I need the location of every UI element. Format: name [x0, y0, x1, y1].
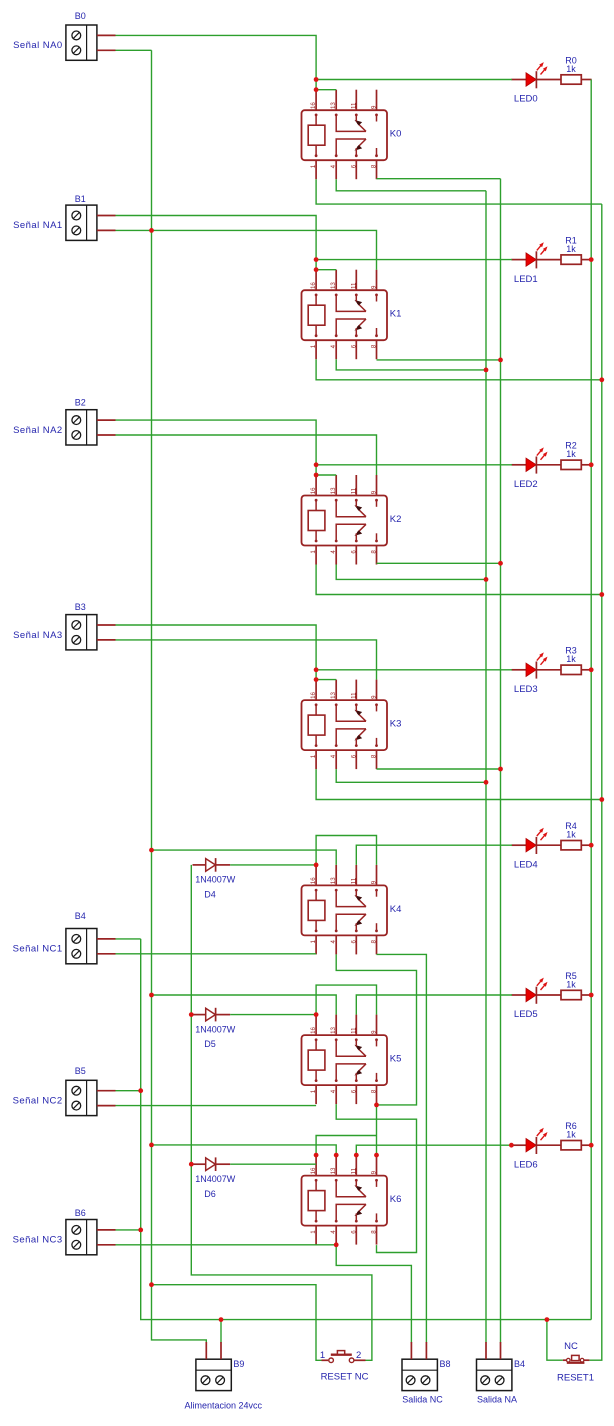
wire to K3.13	[316, 679, 336, 681]
svg-text:8: 8	[371, 550, 378, 554]
wire K.1 rail to RESET1	[589, 204, 601, 1360]
wire to K0.13	[316, 89, 336, 91]
junction	[138, 1228, 143, 1233]
svg-text:4: 4	[330, 550, 337, 554]
svg-text:13: 13	[330, 691, 337, 698]
junction	[189, 1012, 194, 1017]
junction	[314, 863, 319, 868]
junction	[498, 358, 503, 363]
svg-text:1: 1	[310, 164, 317, 168]
resistor R2 (1k)	[561, 441, 592, 470]
svg-text:B3: B3	[75, 602, 86, 612]
svg-text:LED6: LED6	[514, 1159, 538, 1170]
junction	[314, 462, 319, 467]
junction	[314, 77, 319, 82]
svg-text:8: 8	[371, 344, 378, 348]
svg-text:9: 9	[371, 880, 378, 884]
wire K.4 rail to Salida NA 1	[485, 191, 487, 1343]
terminal block B9 (Alimentacion 24vcc)	[185, 1342, 263, 1410]
terminal block B0 (Señal NA0)	[13, 11, 115, 60]
svg-text:9: 9	[371, 490, 378, 494]
svg-text:1k: 1k	[566, 244, 576, 254]
svg-text:2: 2	[356, 1350, 361, 1361]
junction	[354, 1153, 359, 1158]
svg-text:8: 8	[371, 940, 378, 944]
svg-text:NC: NC	[564, 1341, 578, 1352]
wire NC common rail bottom	[141, 939, 592, 1320]
wire K5.11 to LED5	[356, 995, 512, 1015]
svg-text:K2: K2	[390, 514, 402, 525]
LED LED6	[511, 1128, 561, 1171]
wire B1.2 to K1.9	[116, 230, 377, 269]
svg-text:1k: 1k	[566, 830, 576, 840]
wire K6.4 to Salida NC 1	[336, 1245, 411, 1343]
svg-text:1N4007W: 1N4007W	[195, 875, 236, 885]
svg-text:1: 1	[310, 1230, 317, 1234]
wire B6.1 to NC rail	[116, 1229, 141, 1231]
wire K2.8 out	[377, 562, 501, 564]
wire K4 coil tie to K4.9	[316, 836, 376, 865]
svg-text:K5: K5	[390, 1054, 402, 1065]
junction	[334, 1242, 339, 1247]
junction	[589, 257, 594, 262]
wire to K2.13	[316, 474, 336, 476]
wire K3.8 out	[377, 768, 501, 770]
diode D6 (1N4007W)	[193, 1157, 236, 1198]
wire rail to K4.13	[152, 850, 337, 865]
junction	[314, 257, 319, 262]
junction	[334, 1153, 339, 1158]
wire B3.1 to K3 coil	[116, 625, 317, 680]
svg-text:1k: 1k	[566, 64, 576, 74]
relay K3	[302, 680, 402, 770]
junction	[149, 228, 154, 233]
svg-text:16: 16	[310, 1167, 317, 1174]
junction	[599, 592, 604, 597]
junction	[219, 1317, 224, 1322]
junction	[599, 377, 604, 382]
svg-text:LED1: LED1	[514, 274, 538, 285]
junction	[314, 87, 319, 92]
wire B2.2 to K2.9	[116, 435, 377, 475]
svg-text:13: 13	[330, 102, 337, 109]
resistor R6 (1k)	[561, 1121, 592, 1150]
svg-text:K6: K6	[390, 1194, 402, 1205]
svg-text:K3: K3	[390, 719, 402, 730]
svg-text:D6: D6	[204, 1189, 216, 1199]
svg-text:Señal NA2: Señal NA2	[13, 425, 62, 436]
svg-text:11: 11	[350, 487, 357, 494]
wire B0.2 to rail	[116, 49, 152, 51]
svg-text:B2: B2	[75, 398, 86, 408]
svg-text:6: 6	[350, 1089, 357, 1093]
wire K.8 rail to Salida NA 2	[500, 179, 502, 1343]
wire to RESET1	[547, 1320, 563, 1361]
svg-text:13: 13	[330, 1026, 337, 1033]
wire rail to K5.13	[152, 995, 337, 1015]
wire D6 anode tap	[191, 1163, 192, 1165]
svg-text:Señal NA1: Señal NA1	[13, 220, 62, 231]
diode D5 (1N4007W)	[193, 1008, 236, 1049]
svg-text:LED4: LED4	[514, 859, 538, 870]
LED LED4	[511, 828, 561, 871]
svg-text:K4: K4	[390, 904, 402, 915]
junction	[314, 1012, 319, 1017]
junction	[374, 1103, 379, 1108]
junction	[498, 561, 503, 566]
wire K3.1 out	[316, 769, 602, 799]
svg-text:D4: D4	[204, 890, 216, 900]
wire diode anode rail to RESET NC.2	[191, 865, 372, 1360]
junction	[138, 1088, 143, 1093]
svg-text:B4: B4	[75, 911, 86, 921]
svg-text:1: 1	[310, 940, 317, 944]
svg-text:4: 4	[330, 164, 337, 168]
svg-text:13: 13	[330, 1167, 337, 1174]
svg-text:11: 11	[350, 282, 357, 289]
resistor R3 (1k)	[561, 646, 592, 675]
wire K6 coil tie to K6.9	[316, 1136, 376, 1156]
svg-text:1N4007W: 1N4007W	[195, 1174, 236, 1184]
svg-text:Señal NC2: Señal NC2	[13, 1096, 63, 1107]
resistor R0 (1k)	[561, 55, 592, 84]
svg-text:B1: B1	[75, 194, 86, 204]
svg-text:16: 16	[310, 877, 317, 884]
wire K0.1 out	[316, 179, 602, 204]
svg-text:1: 1	[310, 1089, 317, 1093]
junction	[509, 1143, 514, 1148]
svg-text:D5: D5	[204, 1039, 216, 1049]
wire K6.11 to LED6	[356, 1145, 512, 1155]
svg-text:16: 16	[310, 487, 317, 494]
wire B3.2 to K3.9	[116, 640, 377, 680]
relay K4	[302, 865, 402, 955]
wire K4.8 to Salida NC 2	[377, 954, 427, 1342]
svg-text:K1: K1	[390, 309, 402, 320]
junction	[149, 1282, 154, 1287]
svg-text:9: 9	[371, 105, 378, 109]
svg-text:LED3: LED3	[514, 684, 538, 695]
junction	[484, 780, 489, 785]
wire D4 to K4 coil	[230, 864, 316, 866]
svg-text:6: 6	[350, 940, 357, 944]
wire to LED1	[316, 259, 512, 261]
LED LED3	[511, 652, 561, 695]
terminal block B4 (Señal NC1)	[13, 911, 116, 964]
svg-text:Señal NA3: Señal NA3	[13, 630, 62, 641]
svg-text:B9: B9	[233, 1359, 244, 1369]
svg-text:8: 8	[371, 164, 378, 168]
svg-text:1k: 1k	[566, 979, 576, 989]
svg-text:11: 11	[350, 692, 357, 699]
junction	[545, 1317, 550, 1322]
LED LED5	[511, 978, 561, 1021]
svg-text:9: 9	[371, 1170, 378, 1174]
wire B1.1 to K1 coil	[116, 216, 317, 270]
svg-text:13: 13	[330, 282, 337, 289]
junction	[314, 677, 319, 682]
svg-text:LED5: LED5	[514, 1009, 538, 1020]
terminal block B1 (Señal NA1)	[13, 194, 115, 240]
wire rail to RESET NC.1	[152, 1285, 322, 1361]
svg-text:13: 13	[330, 487, 337, 494]
svg-text:4: 4	[330, 1089, 337, 1093]
svg-text:B0: B0	[75, 11, 86, 21]
svg-text:16: 16	[310, 691, 317, 698]
junction	[149, 1143, 154, 1148]
wire to LED0	[316, 79, 512, 81]
svg-text:B4: B4	[514, 1359, 525, 1369]
junction	[589, 667, 594, 672]
wire B4.2 to K4.1	[116, 953, 317, 955]
wire rail to K6.13	[152, 1145, 337, 1155]
svg-text:1: 1	[310, 550, 317, 554]
terminal block B6 (Señal NC3)	[13, 1208, 116, 1255]
svg-text:9: 9	[371, 285, 378, 289]
resistor R1 (1k)	[561, 235, 592, 264]
junction	[314, 473, 319, 478]
wire supply rail to B9.1	[152, 50, 207, 1342]
wire B4.1 to NC rail	[116, 938, 141, 940]
wire tap to B9.2	[220, 1320, 222, 1343]
junction	[314, 667, 319, 672]
junction	[589, 843, 594, 848]
LED LED2	[511, 447, 561, 490]
terminal block B4 (Salida NA)	[477, 1342, 526, 1404]
wire K1.4 out	[336, 359, 486, 370]
svg-text:4: 4	[330, 940, 337, 944]
wire B5.1 to NC rail	[116, 1090, 141, 1092]
wire K2.1 out	[316, 565, 602, 595]
junction	[484, 368, 489, 373]
svg-text:16: 16	[310, 282, 317, 289]
svg-text:Alimentacion 24vcc: Alimentacion 24vcc	[185, 1400, 263, 1410]
svg-text:1N4007W: 1N4007W	[195, 1024, 236, 1034]
wire LED return rail	[590, 80, 592, 1320]
wire D5 anode tap	[191, 1014, 192, 1016]
svg-text:6: 6	[350, 164, 357, 168]
wire K2.4 out	[336, 565, 486, 580]
wire K4.11 to LED4	[356, 845, 512, 865]
svg-text:8: 8	[371, 1089, 378, 1093]
junction	[599, 797, 604, 802]
junction	[589, 993, 594, 998]
svg-text:B6: B6	[75, 1208, 86, 1218]
LED LED0	[511, 62, 561, 105]
svg-text:11: 11	[350, 102, 357, 109]
junction	[374, 1153, 379, 1158]
wire K5 coil tie to K5.9	[316, 985, 376, 1015]
pushbutton RESET NC	[320, 1350, 369, 1382]
junction	[149, 848, 154, 853]
jumper RESET1 (NC)	[557, 1341, 594, 1384]
relay K0	[302, 90, 402, 180]
svg-text:11: 11	[350, 1167, 357, 1174]
wire to K1.13	[316, 269, 336, 271]
svg-text:RESET1: RESET1	[557, 1372, 594, 1383]
svg-text:8: 8	[371, 754, 378, 758]
junction	[314, 267, 319, 272]
svg-text:6: 6	[350, 550, 357, 554]
svg-text:9: 9	[371, 695, 378, 699]
junction	[484, 577, 489, 582]
svg-text:11: 11	[350, 1027, 357, 1034]
wire to LED2	[316, 464, 512, 466]
junction	[498, 767, 503, 772]
svg-text:1: 1	[320, 1350, 325, 1361]
svg-text:6: 6	[350, 344, 357, 348]
svg-text:Señal NC3: Señal NC3	[13, 1235, 63, 1246]
svg-text:6: 6	[350, 754, 357, 758]
relay K6	[302, 1155, 402, 1245]
wire B6.2 to K6.4	[116, 1244, 337, 1246]
wire K1.8 out	[377, 359, 501, 361]
junction	[189, 1162, 194, 1167]
diode D4 (1N4007W)	[193, 858, 236, 899]
wire K3.4 out	[336, 769, 486, 782]
junction	[589, 1143, 594, 1148]
LED LED1	[511, 242, 561, 285]
relay K1	[302, 270, 402, 360]
svg-text:K0: K0	[390, 129, 402, 140]
svg-text:LED2: LED2	[514, 479, 538, 490]
wire K4.4 to K5.8	[336, 954, 416, 1105]
wire B0.1 to K0 coil	[116, 35, 317, 89]
svg-text:16: 16	[310, 102, 317, 109]
svg-text:9: 9	[371, 1030, 378, 1034]
svg-text:6: 6	[350, 1230, 357, 1234]
relay K5	[302, 1015, 402, 1105]
wire K0.8 out	[377, 178, 501, 180]
svg-text:16: 16	[310, 1026, 317, 1033]
svg-text:4: 4	[330, 754, 337, 758]
resistor R5 (1k)	[561, 971, 592, 1000]
junction	[314, 1153, 319, 1158]
junction	[589, 462, 594, 467]
relay K2	[302, 475, 402, 565]
resistor R4 (1k)	[561, 821, 592, 850]
svg-text:1: 1	[310, 344, 317, 348]
wire K1.1 out	[316, 359, 602, 380]
wire D6 to K6 coil	[230, 1163, 316, 1165]
svg-text:1k: 1k	[566, 1130, 576, 1140]
svg-text:1k: 1k	[566, 449, 576, 459]
svg-text:RESET NC: RESET NC	[321, 1372, 369, 1383]
svg-text:4: 4	[330, 1230, 337, 1234]
junction	[149, 993, 154, 998]
terminal block B3 (Señal NA3)	[13, 602, 115, 650]
svg-text:B8: B8	[440, 1359, 451, 1369]
wire B5.2 to K5.1	[116, 1105, 317, 1107]
svg-text:Señal NC1: Señal NC1	[13, 944, 63, 955]
wire B2.1 to K2 coil	[116, 420, 317, 475]
svg-text:1k: 1k	[566, 654, 576, 664]
svg-text:Señal NA0: Señal NA0	[13, 40, 62, 51]
wire K5.4 to K6.8	[336, 1104, 416, 1252]
svg-text:B5: B5	[75, 1066, 86, 1076]
svg-text:LED0: LED0	[514, 94, 538, 105]
svg-text:13: 13	[330, 877, 337, 884]
svg-text:4: 4	[330, 344, 337, 348]
wire D5 to K5 coil	[230, 1014, 316, 1016]
terminal block B2 (Señal NA2)	[13, 398, 115, 445]
wire K5.8 chain to K6.9	[376, 1105, 378, 1155]
svg-text:Salida NA: Salida NA	[477, 1394, 517, 1404]
wire K0.4 out	[336, 179, 486, 191]
wire to LED3	[316, 669, 512, 671]
svg-text:Salida NC: Salida NC	[402, 1394, 443, 1404]
svg-text:8: 8	[371, 1230, 378, 1234]
terminal block B8 (Salida NC)	[402, 1342, 451, 1404]
svg-text:1: 1	[310, 754, 317, 758]
svg-text:11: 11	[350, 877, 357, 884]
terminal block B5 (Señal NC2)	[13, 1066, 116, 1116]
